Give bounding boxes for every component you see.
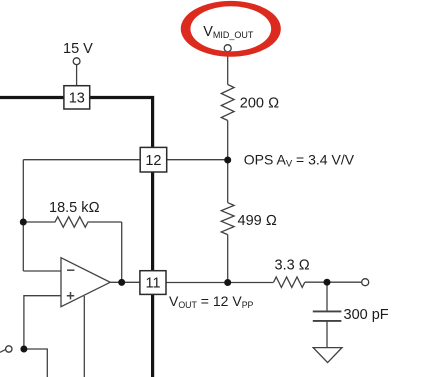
wire: pin 12 left to feedback net [23, 159, 140, 161]
op-amp inverting input minus symbol [67, 269, 74, 271]
node: VOUT junction [224, 279, 231, 286]
node: op-amp output junction [118, 279, 125, 286]
annotation: red ellipse around V_MID_OUT [186, 4, 276, 54]
terminal: left input [6, 346, 12, 352]
wire: VOUT node to 3.3 ohm [228, 282, 274, 284]
wire: 200 ohm bottom to OPS node [227, 121, 229, 161]
node: left input junction [20, 346, 27, 353]
wire: capacitor bottom to ground [326, 322, 328, 348]
svg-text:13: 13 [69, 91, 85, 107]
svg-text:VOUT = 12 VPP: VOUT = 12 VPP [169, 293, 254, 310]
pin box 11 [140, 271, 166, 295]
svg-text:3.3 Ω: 3.3 Ω [275, 258, 310, 274]
svg-text:11: 11 [145, 276, 160, 292]
svg-text:15 V: 15 V [63, 41, 93, 57]
svg-text:200 Ω: 200 Ω [240, 96, 279, 112]
op-amp non-inverting input plus symbol [67, 292, 74, 299]
node: feedback junction on inverting net [20, 219, 27, 226]
wire: left input terminal stub [0, 349, 6, 352]
wire: thick 15V rail from left edge through pin 13 then down past pins 12 and 11 to bottom [0, 98, 153, 377]
wire: op-amp output to pin 11 [110, 281, 140, 283]
pin box 12 [140, 147, 167, 172]
node: output RC junction [324, 279, 331, 286]
svg-text:12: 12 [145, 153, 161, 169]
capacitor C 300pF plates [313, 310, 342, 312]
wire: OPS node down to 499 ohm [227, 160, 229, 203]
svg-text:OPS AV = 3.4 V/V: OPS AV = 3.4 V/V [244, 152, 355, 170]
ground symbol [313, 348, 342, 363]
wire: 15V terminal stub down to pin 13 box [76, 65, 78, 86]
wire: 3.3 ohm to output node and terminal [305, 281, 362, 283]
svg-text:18.5 kΩ: 18.5 kΩ [49, 200, 100, 216]
wire: 499 ohm bottom to VOUT node [227, 235, 229, 283]
svg-text:300 pF: 300 pF [344, 307, 389, 323]
resistor R 499 ohm [221, 203, 234, 235]
terminal: right output [362, 279, 369, 286]
wire: V_MID_OUT terminal down to 200 ohm [227, 52, 229, 85]
resistor R 200 ohm [221, 85, 234, 121]
terminal: 15V supply [73, 58, 80, 65]
node: OPS mid junction [224, 157, 231, 164]
svg-text:VMID_OUT: VMID_OUT [203, 24, 254, 40]
resistor R 3.3 ohm [274, 277, 305, 287]
terminal: V_MID_OUT [224, 45, 231, 52]
wire: non-inverting input from left net [24, 296, 61, 349]
wire: pin 11 right to VOUT node [166, 282, 228, 284]
wire: output node down to capacitor [326, 282, 328, 310]
wire: pin 12 right to OPS node [167, 159, 228, 161]
wire: input net to bottom edge [24, 349, 47, 377]
op-amp U1 triangle [61, 258, 110, 307]
wire: inverting input into op-amp [23, 270, 61, 272]
wire: 18.5k right lead down to op-amp output node [121, 222, 123, 283]
pin box 13 [64, 86, 90, 109]
svg-text:499 Ω: 499 Ω [238, 213, 277, 229]
wire: left feedback vertical down to inverting input [22, 160, 24, 271]
resistor R 18.5k (feedback) [23, 217, 121, 227]
wire: op-amp negative supply pin to bottom edge [83, 296, 85, 377]
